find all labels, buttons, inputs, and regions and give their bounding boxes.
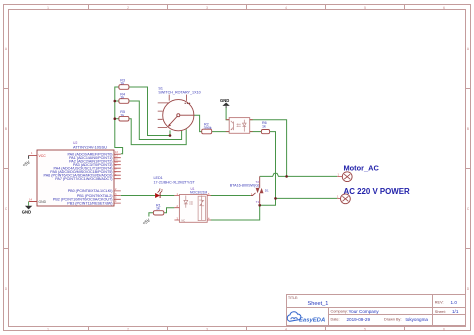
svg-text:6: 6 [443,6,445,10]
svg-text:NC: NC [182,220,186,223]
EasyEDA logo [287,312,325,324]
svg-text:B: B [467,127,469,131]
wire R5 left [115,118,119,120]
junction node R4 rail [114,100,117,103]
svg-text:5: 5 [364,6,366,10]
svg-text:6: 6 [443,328,445,332]
svg-text:4: 4 [285,328,287,332]
wire R4 right to switch pin [129,101,182,140]
triac D1 BTA16-800SW(G) [230,176,269,205]
wire motor node to motor connector [287,175,338,177]
resistor R2 [202,122,212,133]
svg-text:1k: 1k [262,124,266,128]
svg-text:SWITCH_ROTARY_1X10: SWITCH_ROTARY_1X10 [158,91,200,95]
rotary switch S1 [158,87,201,131]
svg-text:PB3 (PCINT11/RESET/dW): PB3 (PCINT11/RESET/dW) [67,201,112,205]
svg-text:2019-09-29: 2019-09-29 [347,317,371,322]
svg-text:T2: T2 [256,180,260,184]
svg-text:Motor_AC: Motor_AC [344,164,380,173]
svg-text:MOC3021M: MOC3021M [190,190,208,194]
optotriac U1 MOC3021M [174,187,211,223]
svg-text:2: 2 [127,328,129,332]
svg-text:Sheet:: Sheet: [435,310,446,314]
resistor R4 [119,92,129,103]
wire MOC pin6 to triac gate [211,195,251,197]
svg-text:GND: GND [22,210,31,215]
IC U2 ATTINY24V-10SSU [29,141,121,206]
svg-text:D1: D1 [265,189,269,193]
svg-text:Date:: Date: [331,318,340,322]
svg-text:2: 2 [127,6,129,10]
wire LED1 to MOC pin1 [160,195,174,197]
connector P1 Motor_AC [337,164,379,182]
svg-text:Drawn By:: Drawn By: [384,318,402,322]
svg-text:BTA16-800SW(G): BTA16-800SW(G) [230,183,260,187]
wire R6 down to AC node [270,132,276,199]
wire AC node to AC connector [276,197,338,199]
svg-text:Your Company: Your Company [349,309,380,314]
svg-text:5: 5 [364,328,366,332]
junction node AC [274,197,277,200]
wire T1 node to AC node [260,198,276,205]
svg-text:VCC: VCC [39,154,47,158]
LED1 [154,176,196,198]
svg-text:3: 3 [206,6,208,10]
wire switch wiper to R2 [194,115,202,131]
svg-text:4: 4 [285,6,287,10]
connector P2 AC 220 V POWER [337,187,410,204]
ground flag GND at IC [22,202,33,215]
wire optocoupler U3 bottom-right to R6 [250,131,262,133]
svg-text:GND: GND [220,98,229,103]
svg-text:TITLE:: TITLE: [288,296,298,300]
svg-text:B: B [5,127,7,131]
wire R3 right to switch pin [129,87,170,136]
svg-text:REV:: REV: [435,301,444,305]
wire triac T2 to motor node with hop [260,173,287,176]
svg-text:T1: T1 [256,200,260,204]
power flag +5V at R1 [142,218,151,226]
junction node T1 [258,204,261,207]
wire R1 to MOC pin2 [164,208,175,213]
junction node motor [285,175,288,178]
svg-text:17-21/BHC-XL2M2TY/3T: 17-21/BHC-XL2M2TY/3T [154,181,196,185]
wire +5V to R1 [149,213,154,217]
svg-text:Company:: Company: [331,310,348,314]
wire MOC pin4 to T1 node [211,205,260,220]
svg-text:1: 1 [47,6,49,10]
wire IC PB pin to LED1 [121,195,155,197]
wire R4 left [115,100,119,102]
svg-text:GND: GND [39,200,47,204]
svg-text:LED1: LED1 [154,176,163,180]
power flag +5V at IC [22,155,31,167]
junction node R5 rail [114,117,117,120]
resistor R5 [119,110,129,121]
svg-text:Sheet_1: Sheet_1 [308,301,329,307]
svg-text:tokyongma: tokyongma [406,317,429,322]
title block [287,295,466,326]
resistor R1 [153,203,163,215]
resistor R6 [261,121,269,134]
wire optocoupler U3 top-right to motor node [250,120,287,177]
optocoupler U3 [226,118,253,134]
junction node switch pin [169,134,172,137]
wire R2 to optocoupler U3 pin [211,131,229,133]
svg-text:AC 220 V POWER: AC 220 V POWER [344,187,411,196]
svg-text:EasyEDA: EasyEDA [299,317,325,323]
resistor R3 [119,78,129,89]
svg-text:3: 3 [206,328,208,332]
ground flag GND at optocoupler [220,98,230,108]
svg-text:PA7 (PCINT7/OC1W/OC0B/ADC7): PA7 (PCINT7/OC1W/OC0B/ADC7) [55,177,112,181]
wire R5 right to switch pin [129,119,187,145]
svg-text:1/1: 1/1 [452,309,459,314]
svg-text:1.0: 1.0 [451,300,458,305]
svg-text:ATTINY24V-10SSU: ATTINY24V-10SSU [73,144,107,149]
svg-text:1: 1 [47,328,49,332]
svg-text:PB0 (PCINT8/XTAL1/CLKI): PB0 (PCINT8/XTAL1/CLKI) [68,189,113,193]
wire rail R3/R4/R5 left to IC pin PA0 [115,87,123,154]
wire GND to optocoupler U3 [226,108,229,120]
svg-text:1k: 1k [156,207,160,211]
